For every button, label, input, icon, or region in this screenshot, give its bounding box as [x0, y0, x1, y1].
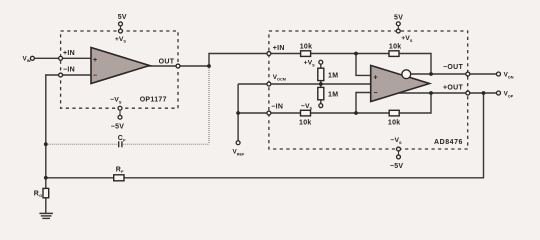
- wire 5V stub right: [397, 24, 399, 31]
- svg-text:−: −: [93, 73, 97, 80]
- resistor 10k bottom-left: [299, 110, 312, 126]
- node +VS left box: [119, 29, 123, 33]
- capacitor CF: [118, 135, 126, 147]
- op-amp U1 OP1177 triangle: [91, 48, 150, 84]
- wire bottom feedback RF line: [46, 177, 484, 179]
- wire op-amp -IN horizontal: [45, 74, 92, 76]
- wire -IN feedback vertical: [45, 74, 47, 178]
- svg-text:10k: 10k: [299, 120, 312, 127]
- svg-text:10k: 10k: [300, 43, 313, 50]
- node -IN left box: [59, 73, 63, 77]
- junction +IN row to + input: [354, 52, 358, 56]
- svg-text:1M: 1M: [328, 92, 338, 99]
- wire 1M divider column: [320, 64, 322, 104]
- dashed box OP1177: [61, 31, 178, 108]
- svg-text:−OUT: −OUT: [443, 64, 463, 71]
- wire -V stub right: [398, 149, 400, 157]
- node +OUT right box: [466, 91, 470, 95]
- node +VS right box: [396, 29, 400, 33]
- svg-text:−IN: −IN: [63, 66, 75, 73]
- svg-text:AD8476: AD8476: [434, 139, 463, 146]
- wire -V stub left: [119, 108, 121, 117]
- node -VS right box: [397, 147, 401, 151]
- svg-text:1M: 1M: [328, 72, 338, 79]
- junction VOCM divider: [319, 82, 323, 86]
- wire -IN row of AD8476: [238, 93, 431, 113]
- wire 5V stub left: [120, 24, 122, 31]
- wire +OUT feedback vertical: [483, 93, 485, 178]
- node +IN right box: [267, 52, 271, 56]
- svg-text:−5V: −5V: [111, 124, 125, 131]
- resistor 1M upper: [318, 68, 339, 80]
- svg-text:OUT: OUT: [159, 58, 175, 65]
- wire VIN to op-amp +IN: [34, 57, 92, 59]
- node -IN right box: [267, 111, 271, 115]
- resistor 10k top-right: [389, 43, 402, 56]
- wire +OUT row: [399, 92, 497, 94]
- resistor RG: [34, 188, 49, 198]
- svg-text:+OUT: +OUT: [443, 84, 463, 91]
- dotted feedback CF path vertical: [208, 66, 210, 144]
- dashed box AD8476: [269, 31, 468, 149]
- terminal -5V right: [397, 155, 401, 159]
- op-amp U2 AD8476 triangle: [371, 65, 430, 101]
- node -VS left box: [118, 106, 122, 110]
- svg-text:5V: 5V: [394, 15, 403, 22]
- junction -IN row to - input: [354, 111, 358, 115]
- junction +OUT feedback: [429, 91, 433, 95]
- terminal VOP: [497, 91, 501, 95]
- junction VREF to -IN row: [236, 111, 240, 115]
- svg-text:+IN: +IN: [63, 50, 75, 57]
- svg-text:OP1177: OP1177: [140, 97, 167, 104]
- wire -OUT row: [406, 73, 497, 75]
- resistor 1M lower: [318, 87, 339, 99]
- wire VOCM row: [238, 83, 371, 85]
- wire OP1177 output: [148, 65, 210, 67]
- wire to internal - input: [356, 93, 372, 114]
- terminal 5V right: [396, 22, 400, 26]
- svg-text:−: −: [374, 90, 378, 97]
- junction CF to -IN column: [44, 142, 48, 146]
- ground: [39, 213, 53, 218]
- wire RG to ground: [45, 178, 47, 214]
- node +IN left box: [59, 56, 63, 60]
- terminal VREF: [236, 141, 240, 145]
- svg-text:10k: 10k: [388, 120, 401, 127]
- wire to internal + input: [356, 54, 372, 76]
- svg-text:10k: 10k: [389, 43, 402, 50]
- terminal -VS divider: [319, 104, 323, 108]
- junction RF to RG node: [44, 176, 48, 180]
- node -OUT right box: [466, 72, 470, 76]
- svg-text:−IN: −IN: [271, 104, 283, 111]
- terminal 5V left: [119, 22, 123, 26]
- svg-text:+IN: +IN: [273, 45, 285, 52]
- svg-text:−5V: −5V: [390, 163, 404, 170]
- dotted feedback CF path horizontal left: [46, 143, 118, 145]
- svg-text:5V: 5V: [118, 14, 127, 21]
- svg-text:+: +: [374, 74, 378, 81]
- wire output riser: [209, 54, 269, 67]
- svg-text:+: +: [93, 57, 97, 64]
- terminal VON: [497, 72, 501, 76]
- op-amp U2 VOCM circle: [402, 70, 411, 79]
- junction at output tap: [207, 64, 211, 68]
- junction -OUT feedback: [429, 72, 433, 76]
- junction +OUT output tap: [482, 91, 486, 95]
- node VOCM right box: [267, 82, 271, 86]
- dotted feedback CF path horizontal right: [123, 143, 209, 145]
- terminal +VS divider: [319, 60, 323, 64]
- resistor 10k bottom-right: [388, 110, 401, 126]
- terminal -5V left: [118, 115, 122, 119]
- wire VREF vertical: [237, 84, 239, 141]
- resistor RF: [114, 167, 124, 181]
- resistor 10k top-left: [300, 43, 313, 56]
- wire +IN row of AD8476: [269, 54, 431, 75]
- node OUT left box: [176, 64, 180, 68]
- terminal VIN: [30, 56, 34, 60]
